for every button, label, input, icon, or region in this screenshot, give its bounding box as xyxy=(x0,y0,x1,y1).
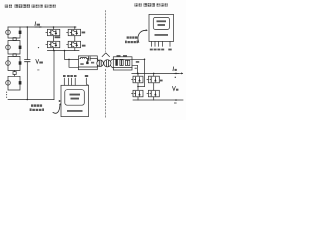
S2 transistor xyxy=(70,30,71,34)
caption (a) primary-side circuit title xyxy=(5,4,56,7)
bridge bottom rail xyxy=(47,50,79,52)
source V3 circle xyxy=(6,61,11,66)
rectifier SR2 cell box xyxy=(147,79,148,81)
stray dot xyxy=(38,47,39,48)
source V4 circle xyxy=(6,81,11,86)
U1 part number label xyxy=(67,110,83,112)
S3 diode xyxy=(55,42,57,47)
S4 diode xyxy=(76,42,78,47)
leg bottom stubs xyxy=(54,48,75,51)
rectifier SR4 cell box xyxy=(147,93,148,95)
switch S4 cell box xyxy=(68,41,80,47)
tank internal labels xyxy=(80,63,83,65)
filter element 2 xyxy=(120,60,123,66)
node dots DC+ rail xyxy=(137,73,139,75)
input cell 3 loop xyxy=(8,56,20,70)
isolation boundary dashed line (lower) xyxy=(105,69,107,118)
U2 pins xyxy=(152,42,171,47)
source V1 circle xyxy=(6,30,11,35)
bridge AC wire lower xyxy=(69,59,78,67)
resonant inductor Lr xyxy=(79,58,82,60)
node dot top rail / left leg xyxy=(53,26,55,28)
S2 diode xyxy=(76,30,78,35)
right leg midpoint wire xyxy=(74,27,76,41)
DC link capacitor plates xyxy=(25,60,30,62)
sense line 2 xyxy=(67,78,69,85)
magnetizing branch blob xyxy=(86,62,88,65)
I_o arrow xyxy=(174,72,183,74)
rectifier SR1 cell box xyxy=(132,79,133,81)
cell 3 series element xyxy=(19,61,22,64)
left rectifier leg stubs xyxy=(137,73,139,90)
transformer connection stubs xyxy=(97,59,98,67)
S3 transistor xyxy=(49,42,50,46)
u_s label xyxy=(136,61,139,63)
DC link capacitor branch wire upper xyxy=(26,27,28,60)
secondary AC wire 1 xyxy=(132,59,145,86)
switch S1 cell box xyxy=(47,29,59,35)
U2 part number label xyxy=(155,34,169,36)
S2 gate stub xyxy=(67,32,69,34)
output filter box xyxy=(113,57,132,70)
filter top tick labels xyxy=(117,55,121,57)
right rectifier leg stubs xyxy=(153,73,155,90)
filter element 3 xyxy=(125,60,129,65)
S4 gate stub xyxy=(67,44,69,46)
cell 2 series element xyxy=(19,46,22,49)
filter wires xyxy=(113,59,132,67)
DC link capacitor branch wire lower xyxy=(26,62,28,100)
AC node link xyxy=(138,86,145,88)
V_dc label xyxy=(36,59,39,63)
cell 4 series element xyxy=(19,81,22,84)
input cell 1 loop xyxy=(8,27,20,38)
sense labels xyxy=(63,75,88,77)
sense line 3 xyxy=(71,78,73,85)
node dot bottom rail / return xyxy=(53,50,55,52)
rectifier DC+ rail xyxy=(132,72,179,74)
drive arrow hook (primary) xyxy=(53,105,60,114)
S1 diode xyxy=(55,30,57,35)
transformer secondary winding xyxy=(104,60,111,67)
PWM controller U2 package xyxy=(149,14,174,41)
S1 label xyxy=(55,36,61,38)
S4 transistor xyxy=(70,42,71,46)
resonant tank box xyxy=(78,56,97,70)
DC- bottom rail xyxy=(8,99,54,101)
S1 gate stub xyxy=(46,32,48,34)
S2 label xyxy=(82,32,86,34)
U2 inner body xyxy=(153,17,169,29)
switch S2 cell box xyxy=(68,29,80,35)
output minus mark xyxy=(174,102,177,105)
node dot top rail / right leg xyxy=(74,26,76,28)
I_o label xyxy=(172,67,175,71)
S4 label xyxy=(82,45,86,47)
V_o label xyxy=(172,86,175,90)
DC- return vertical xyxy=(53,51,55,100)
transformer primary winding xyxy=(97,60,104,67)
input cell 2 loop xyxy=(8,41,20,55)
rectifier SR3 cell box xyxy=(132,93,133,95)
link element cell1-cell2 xyxy=(13,38,16,41)
I_in arrow xyxy=(35,26,42,28)
tank lower wire xyxy=(78,66,97,68)
isolation boundary dashed line (upper) xyxy=(105,11,107,52)
sense line 1 xyxy=(63,78,65,85)
source V2 circle xyxy=(6,45,11,50)
DC+ top rail xyxy=(8,26,76,28)
transformer core caret xyxy=(102,53,109,57)
drive signal label (secondary) xyxy=(125,36,138,43)
rectifier DC- rail xyxy=(133,99,183,101)
secondary AC wire 2 xyxy=(132,65,138,73)
drive signal label (primary) xyxy=(30,104,44,111)
caption (b) secondary-side circuit title xyxy=(135,3,168,6)
I_in label xyxy=(34,22,37,26)
resonant capacitor Cr xyxy=(89,57,91,61)
U2 pin labels xyxy=(150,49,172,51)
SR2 label xyxy=(160,80,163,82)
U1 text lines xyxy=(70,94,81,100)
sense line 4 xyxy=(74,78,76,85)
ellipsis continuation dots xyxy=(6,92,7,98)
node dot top rail / cap branch xyxy=(27,26,29,28)
S1 transistor xyxy=(49,30,50,34)
left leg midpoint wire xyxy=(53,27,55,41)
input cell 4 loop xyxy=(8,76,20,90)
sense line 5 xyxy=(86,78,88,85)
DSP controller U1 package xyxy=(61,85,89,116)
filter element 1 xyxy=(115,59,117,66)
S3 gate stub xyxy=(46,44,48,46)
link element cell3-cell4 xyxy=(13,72,16,75)
switch S3 cell box xyxy=(47,41,59,47)
drive arrow hook (secondary) xyxy=(138,30,146,42)
cell 1 series element xyxy=(19,31,22,34)
U2 text lines xyxy=(157,20,167,26)
link element cell2-cell3 xyxy=(13,54,16,57)
bridge AC wire upper xyxy=(65,51,79,60)
output plus mark xyxy=(175,77,176,78)
U1 inner body xyxy=(65,90,85,106)
U1 left arrowhead xyxy=(59,100,61,102)
